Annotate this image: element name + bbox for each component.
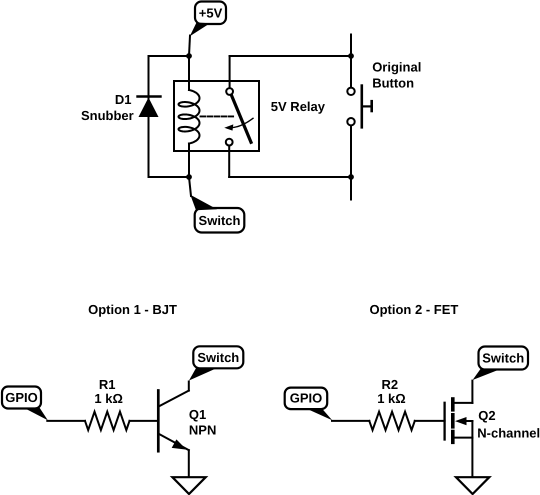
svg-text:Snubber: Snubber [81,108,134,123]
svg-text:R1: R1 [99,377,116,392]
svg-text:NPN: NPN [189,423,216,438]
svg-text:5V Relay: 5V Relay [271,99,326,114]
svg-text:Q1: Q1 [189,407,206,422]
svg-text:GPIO: GPIO [5,390,38,405]
svg-text:Button: Button [372,76,414,91]
svg-text:Switch: Switch [197,350,239,365]
svg-text:Switch: Switch [482,351,524,366]
svg-text:1 kΩ: 1 kΩ [94,391,123,406]
svg-text:Option 1 - BJT: Option 1 - BJT [88,302,177,317]
svg-text:Original: Original [372,60,421,75]
svg-text:D1: D1 [115,92,132,107]
svg-text:N-channel: N-channel [477,426,540,441]
svg-text:Q2: Q2 [478,408,495,423]
svg-text:+5V: +5V [199,6,223,21]
svg-text:R2: R2 [382,377,399,392]
svg-text:Option 2 - FET: Option 2 - FET [369,302,458,317]
svg-text:Switch: Switch [199,213,241,228]
svg-text:1 kΩ: 1 kΩ [377,391,406,406]
svg-text:GPIO: GPIO [290,391,323,406]
